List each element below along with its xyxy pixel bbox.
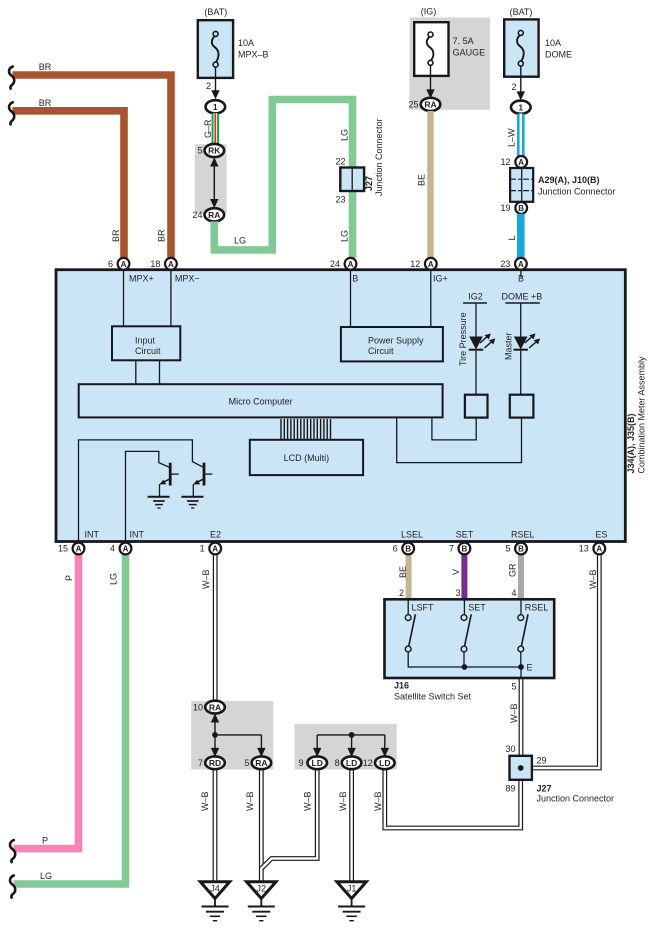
label 7 set [449,544,454,554]
svg-text:7. 5A: 7. 5A [453,36,474,46]
pin circle 4 A [120,543,132,555]
label BE vertical LSEL [398,566,408,578]
label LG horizontal [234,236,246,246]
svg-text:LG: LG [109,573,119,585]
wire BE LSEL to J16 [406,554,412,600]
svg-text:5: 5 [197,146,202,156]
svg-text:W–B: W–B [338,791,348,811]
svg-text:J4: J4 [210,884,220,894]
label BR vertical pin6 [111,229,121,242]
power supply circuit block [341,327,443,361]
ground J2 [247,882,276,921]
svg-text:MPX–B: MPX–B [238,50,269,60]
svg-text:29: 29 [537,756,547,766]
shaded area around RA/RD/RA connector group [191,701,273,769]
svg-text:W–B: W–B [588,569,598,589]
svg-text:J1: J1 [347,884,357,894]
label master vertical [504,332,514,360]
wire P from pin15 to off-page [14,554,79,849]
shaded area around LD connector group [295,724,397,770]
pin circle 18 A [165,258,177,270]
LED master [514,333,541,394]
wire W-B RD to J4 [213,769,218,882]
svg-text:BE: BE [398,566,408,578]
label 18 [150,259,160,269]
svg-text:BR: BR [111,229,121,242]
connector pin oval 1 DOME [511,101,531,114]
connector pin oval 8 LD [342,756,362,769]
svg-text:LG: LG [340,230,350,242]
svg-text:A: A [348,260,354,269]
svg-text:SET: SET [468,603,486,613]
J16 satellite switch set box [385,599,555,678]
svg-text:Junction Connector: Junction Connector [374,118,384,196]
label B pin23 [518,274,524,284]
connector pin oval 7 RD [205,756,225,769]
wire pin4 to transistor Q1 collector [126,451,169,541]
wire G-R [212,113,219,144]
connector pin oval 25 RA [421,98,441,111]
svg-text:Satellite Switch Set: Satellite Switch Set [394,692,472,702]
svg-text:7: 7 [198,758,203,768]
double arrow RK to RA [210,157,218,208]
svg-text:J34(A), J35(B): J34(A), J35(B) [626,413,636,473]
wire pin15 to transistor Q2 collector [79,440,203,541]
svg-text:5: 5 [511,682,516,692]
svg-text:LCD (Multi): LCD (Multi) [284,453,330,463]
wire W-B E2 to 10 RA [213,554,218,701]
svg-text:A29(A), J10(B): A29(A), J10(B) [538,175,600,185]
svg-text:B: B [462,545,468,554]
svg-text:E: E [527,663,533,673]
connector pin oval 1 MPX-B [206,100,226,113]
svg-text:4: 4 [110,544,115,554]
tire pressure driver square [465,395,488,418]
connector pin oval 10 RA [205,701,225,714]
junction connector A29 J10 [510,168,533,202]
label W-B vertical 9LD [303,791,313,811]
label 23 [335,195,345,205]
label LSEL [401,530,423,540]
label L vertical [507,235,517,240]
wire GR RSEL to J16 [518,554,524,600]
svg-text:MPX−: MPX− [175,274,200,284]
pin circle 5 B [515,543,527,555]
fuse MPX-B [198,20,233,78]
label J34(A) J35(B) vertical [626,413,636,473]
wire LG loop from RA to pin24 [214,100,352,259]
ground Q2 [181,497,203,508]
label 13 [579,544,589,554]
pin circle 6 A [118,258,130,270]
svg-text:24: 24 [192,210,202,220]
svg-text:Junction Connector: Junction Connector [538,187,616,197]
off-page curl BR upper [9,67,14,89]
svg-text:RA: RA [209,702,221,712]
wire micro computer to tire pressure square [432,417,476,440]
label 2 J16 [399,588,404,598]
label 9 [298,758,303,768]
label L-W vertical [507,128,517,147]
svg-text:IG+: IG+ [433,274,448,284]
arrow down to 9 LD [313,735,321,757]
svg-text:LSFT: LSFT [412,603,435,613]
svg-text:LG: LG [234,236,246,246]
label BR upper [39,62,52,72]
svg-text:RK: RK [208,146,221,156]
svg-text:89: 89 [505,784,515,794]
label LG vertical upper [340,129,350,141]
label 5 RK [197,146,202,156]
svg-text:2: 2 [511,82,516,92]
pin circle 13 A [593,543,605,555]
arrow down to 12 LD [381,735,389,757]
connector pin oval 24 RA [205,208,225,221]
label 29 [537,756,547,766]
svg-text:B: B [405,545,411,554]
svg-text:Master: Master [504,332,514,360]
svg-text:W–B: W–B [373,791,383,811]
label 3 J16 [455,588,460,598]
wires input circuit to micro computer [136,360,160,384]
svg-text:LD: LD [312,758,323,768]
label 10A DOME [545,38,572,60]
label BE vertical top [417,174,427,186]
svg-text:4: 4 [511,588,516,598]
label 89 [505,784,515,794]
wire pin6 to input circuit [123,270,125,326]
wire LG from pin4 to off-page [14,554,126,884]
wire fuse DOME to connector pin1 [517,66,525,101]
svg-text:7: 7 [449,544,454,554]
svg-text:E2: E2 [210,530,221,540]
label 4 [110,544,115,554]
pin circle 19 B junction [515,202,527,214]
svg-text:RSEL: RSEL [525,603,549,613]
wire pin12 to power supply circuit [430,270,432,327]
pin circle 23 A [515,258,527,270]
label combination meter assembly vertical [637,356,647,474]
label J16 [394,681,472,702]
svg-text:MPX+: MPX+ [129,274,154,284]
svg-text:23: 23 [335,195,345,205]
label 2 MPX-B [206,81,211,91]
svg-text:15: 15 [58,544,68,554]
wire stub pin23 [520,270,522,278]
pin circle 6 B [402,543,414,555]
label GR vertical [508,563,518,577]
junction connector J27 lower [510,756,532,780]
svg-text:3: 3 [455,588,460,598]
label 24 [330,259,340,269]
label MPX- [175,274,200,284]
svg-text:RSEL: RSEL [511,530,535,540]
wire W-B 9 LD merging to J2 [261,769,317,869]
switch SET [461,600,521,670]
label 10A MPX-B [238,38,269,60]
label LG horizontal [40,871,52,881]
label 10 [193,702,203,712]
svg-text:BE: BE [417,174,427,186]
svg-text:J16: J16 [394,681,409,691]
wire W-B 12 LD to J27 pin89 [385,769,521,828]
svg-text:18: 18 [150,259,160,269]
svg-text:B: B [518,204,524,213]
svg-text:Circuit: Circuit [135,346,161,356]
svg-text:B: B [352,274,358,284]
wire pin24 to power supply circuit [350,270,352,327]
wire fuse GAUGE to 25 RA [426,65,434,99]
label junction connector vertical [374,118,384,196]
ground Q1 [148,497,170,508]
svg-text:W–B: W–B [303,791,313,811]
label 12 junction [500,157,510,167]
LED tire pressure [469,333,496,394]
label 5 [244,758,249,768]
label 25 [408,100,418,110]
svg-text:10A: 10A [238,38,254,48]
svg-text:LSEL: LSEL [401,530,423,540]
svg-text:INT: INT [85,530,100,540]
label MPX+ [129,274,154,284]
off-page curl LG [10,876,15,898]
svg-text:LD: LD [379,758,390,768]
wire pin18 to input circuit [170,270,172,326]
svg-text:GR: GR [508,563,518,577]
svg-text:RA: RA [255,758,267,768]
master driver square [510,395,534,418]
label 8 [335,758,340,768]
svg-text:10A: 10A [545,38,561,48]
svg-text:B: B [518,545,524,554]
label LG vertical lower [340,230,350,242]
input circuit block [112,326,180,360]
svg-text:12: 12 [500,157,510,167]
svg-text:6: 6 [393,544,398,554]
svg-text:W–B: W–B [201,569,211,589]
svg-text:BR: BR [39,98,52,108]
svg-text:A: A [518,260,524,269]
svg-text:A: A [428,260,434,269]
label BR vertical pin18 [157,229,167,242]
label A29(A) J10(B) [538,175,616,197]
wire W-B ES to J27 pin29 [532,554,599,768]
label V vertical [451,569,461,575]
svg-text:INT: INT [130,530,145,540]
arrow down to 7 RD [211,735,219,757]
label G-R vertical [203,119,213,138]
wire micro computer to master square [397,417,522,462]
svg-text:2: 2 [399,588,404,598]
transistor Q2 [193,463,212,497]
svg-text:SET: SET [456,530,474,540]
svg-text:J27: J27 [364,176,374,191]
svg-text:30: 30 [505,744,515,754]
ground J4 [200,882,229,921]
data bus hatch micro computer to LCD [281,419,331,440]
svg-text:RA: RA [208,210,220,220]
svg-text:W–B: W–B [245,791,255,811]
wire BR lower from off-page to pin6 [13,111,125,258]
DOME +B rail [502,292,543,337]
arrow down to 8 LD [347,735,355,757]
svg-text:V: V [451,569,461,575]
svg-text:A: A [121,260,127,269]
svg-text:2: 2 [206,81,211,91]
svg-text:DOME: DOME [545,50,572,60]
svg-text:RA: RA [424,100,436,110]
label 15 [58,544,68,554]
junction connector J27 upper [340,168,364,192]
label 5 J16 out [511,682,516,692]
label 7 [198,758,203,768]
svg-text:LG: LG [40,871,52,881]
connector pin oval 5 RA [252,756,272,769]
pin circle 12 A [425,258,437,270]
svg-text:Circuit: Circuit [368,346,394,356]
svg-text:BR: BR [39,62,52,72]
svg-text:(BAT): (BAT) [510,7,533,17]
arrow down to 5 RA [257,735,265,757]
label W-B vertical 12LD [373,791,383,811]
svg-text:L: L [507,235,517,240]
label 12 [410,259,420,269]
label 6 [108,259,113,269]
label 1 [200,544,205,554]
label (BAT) DOME [510,7,533,17]
bus bar LD group [317,732,385,738]
label W-B vertical ES [588,569,598,589]
svg-text:A: A [212,545,218,554]
svg-text:J27: J27 [537,784,552,794]
label 19 junction [500,203,510,213]
label W-B vertical E2 [201,569,211,589]
svg-text:(BAT): (BAT) [204,7,227,17]
label ES [595,530,607,540]
svg-text:Micro Computer: Micro Computer [229,396,293,406]
label W-B vertical E wire [509,703,519,723]
wire fuse MPX-B to connector pin1 [211,67,219,99]
pin circle 15 A [73,543,85,555]
label E2 [210,530,221,540]
pin circle 7 B [459,543,471,555]
label (IG) [421,7,437,17]
wire V SET to J16 [461,554,467,600]
label P vertical [64,575,74,581]
combination meter assembly box J34/J35 [56,270,625,542]
transistor Q1 [159,463,178,497]
fuse GAUGE [414,22,448,76]
svg-text:A: A [123,545,129,554]
svg-text:6: 6 [108,259,113,269]
wire BE from 25 RA to pin12 [427,111,434,258]
off-page curl P [10,840,15,862]
label INT pin4 [130,530,145,540]
svg-text:G–R: G–R [203,119,213,138]
svg-text:13: 13 [579,544,589,554]
svg-text:10: 10 [193,702,203,712]
label 23 [500,259,510,269]
label BR lower [39,98,52,108]
pin circle 24 A [345,258,357,270]
svg-text:GAUGE: GAUGE [453,48,486,58]
svg-text:22: 22 [335,157,345,167]
svg-text:5: 5 [244,758,249,768]
label W-B vertical J1 [338,791,348,811]
pin circle 12 A junction [515,156,527,168]
switch LSFT [405,600,464,667]
connector pin oval 12 LD [375,756,395,769]
wire L-W [517,114,525,157]
label INT pin15 [85,530,100,540]
connector pin oval 9 LD [307,756,327,769]
svg-text:Junction Connector: Junction Connector [537,794,615,804]
label IG+ [433,274,448,284]
LCD (Multi) block [250,440,363,475]
svg-text:A: A [518,158,524,167]
fuse DOME [504,19,538,76]
svg-text:L–W: L–W [507,128,517,147]
svg-text:1: 1 [200,544,205,554]
wire W-B 5 RA to J2 [259,769,264,882]
svg-text:P: P [64,575,74,581]
wire BR upper from off-page to pin18 [13,75,172,258]
node E [527,663,533,673]
svg-text:1: 1 [518,102,523,112]
svg-text:24: 24 [330,259,340,269]
svg-text:J2: J2 [257,884,267,894]
svg-text:B: B [518,274,524,284]
connector pin oval 5 RK [205,144,225,157]
svg-text:8: 8 [335,758,340,768]
label 2 DOME [511,82,516,92]
svg-text:LG: LG [340,129,350,141]
label 7.5A GAUGE [453,36,486,58]
svg-text:W–B: W–B [200,791,210,811]
svg-text:LD: LD [346,758,357,768]
label 30 [505,744,515,754]
label B pin24 [352,274,358,284]
wire W-B J16 E to J27 pin30 [519,679,524,756]
svg-text:A: A [168,260,174,269]
label W-B vertical J4 [200,791,210,811]
svg-text:Power Supply: Power Supply [368,336,424,346]
svg-text:25: 25 [408,100,418,110]
wire L [517,214,525,258]
label SET pin7 [456,530,474,540]
label tire pressure vertical [458,312,468,366]
arrow up into 10 RA and branch [211,713,262,737]
label J27 lower [537,784,615,804]
label 4 J16 [511,588,516,598]
svg-text:P: P [42,836,48,846]
svg-text:1: 1 [213,102,218,112]
svg-text:RD: RD [209,758,221,768]
label P horizontal [42,836,48,846]
label 12 [363,758,373,768]
pin circle 1 A [209,543,221,555]
svg-text:DOME +B: DOME +B [502,292,543,302]
svg-text:12: 12 [410,259,420,269]
svg-text:ES: ES [595,530,607,540]
svg-text:(IG): (IG) [421,7,437,17]
svg-text:Tire Pressure: Tire Pressure [458,312,468,366]
svg-text:19: 19 [500,203,510,213]
svg-text:5: 5 [505,544,510,554]
svg-text:IG2: IG2 [468,292,483,302]
IG2 rail [463,292,487,337]
label 24 RA [192,210,202,220]
